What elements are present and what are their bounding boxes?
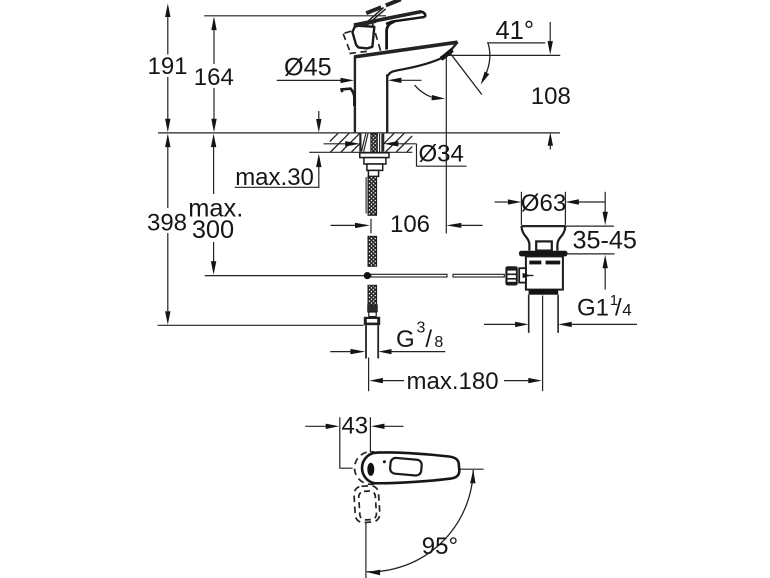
drain tailpipe left [528, 295, 530, 333]
handle raised-lever thin diagonal B [363, 8, 384, 26]
braided hose segment 2 [368, 236, 377, 266]
faucet spout tip return edge [449, 42, 458, 53]
angle arc right [482, 43, 490, 80]
drain clamp block [536, 241, 552, 250]
handle top-view right ref line [461, 468, 484, 470]
spout angle diagonal [450, 52, 482, 94]
dim 35-45 lower ref line [565, 253, 615, 255]
dim 45 right arrow [388, 78, 402, 83]
dim 35-45 lower arrow [603, 255, 608, 268]
mounting nut step3 [368, 170, 378, 176]
handle knob top edge [354, 21, 376, 26]
hose outline left of braid [365, 177, 367, 214]
dim 398 bottom arrow [165, 311, 170, 325]
dim 34 right arrow [383, 141, 398, 146]
dim 63 right ext line [564, 192, 566, 225]
hose end fitting [367, 305, 378, 313]
shank hose curve B [364, 134, 368, 152]
dim 45 left arrow [341, 78, 355, 83]
braided hose segment 3 [368, 285, 377, 312]
bottom 398 reference line [158, 324, 364, 326]
svg-text:3: 3 [417, 320, 426, 337]
handle top-view dashed lever outer [354, 485, 381, 523]
handle lever bar bottom line [386, 17, 425, 24]
dim max180 right ext line [542, 296, 544, 392]
dim 41deg down arrow [549, 22, 551, 42]
braided hose through counter [371, 134, 377, 152]
svg-text:35-45: 35-45 [573, 226, 637, 254]
dim 398 vertical line [167, 146, 169, 208]
handle dashed raised-lever bottom edge [350, 51, 369, 53]
svg-text:/: / [615, 295, 622, 322]
dim 164 vertical line [213, 19, 215, 64]
drain body tab right [546, 261, 561, 265]
label 41deg underline [487, 42, 545, 44]
pull-rod knob [342, 89, 355, 106]
handle top-view dashed lever inner [358, 491, 376, 521]
drain bottom rim [529, 290, 559, 295]
dim 34 left arrow [324, 143, 347, 145]
handle top-view dashed cap arc [355, 452, 375, 485]
drain flange [519, 251, 568, 257]
svg-text:max.30: max.30 [235, 164, 314, 191]
dim max300 vertical line [213, 146, 215, 194]
faucet spout top edge [354, 42, 457, 57]
label max.30 underline-leader [235, 186, 320, 188]
bottom view centerline [365, 523, 367, 578]
drain valve top [521, 225, 565, 227]
dim 95deg top arrowhead [470, 470, 475, 484]
dim 35-45 upper arrow [603, 212, 608, 226]
dim max300 bottom arrow [211, 261, 216, 275]
dim max300 top arrow [211, 134, 216, 148]
angle arc left arrowhead [432, 95, 446, 100]
handle top-view small dot [383, 460, 386, 463]
pop-up rod segment 2 [453, 274, 504, 277]
svg-text:4: 4 [622, 301, 631, 320]
dim 95deg arc [367, 470, 473, 572]
svg-text:95°: 95° [422, 533, 458, 560]
dim 106 right arrow [446, 223, 461, 228]
handle neck [387, 22, 395, 50]
dim 43 right tick [369, 417, 371, 452]
label 34 leader box [417, 144, 467, 166]
dim 95deg bottom arrowhead [367, 570, 381, 575]
rod clip detail [523, 273, 531, 278]
handle top-view recess [390, 457, 422, 475]
drain body [526, 256, 563, 289]
rod clevis collar [519, 268, 526, 282]
handle dashed raised neck [372, 22, 381, 52]
G3/8 nipple left edge [365, 325, 367, 358]
handle top-view pivot mark [367, 463, 374, 476]
braided hose segment 1 [368, 176, 377, 215]
angle arc right arrowhead [481, 72, 490, 85]
svg-text:G1: G1 [577, 295, 609, 322]
dim 63 left arrow [495, 201, 509, 203]
svg-text:108: 108 [531, 83, 571, 110]
dim G1-1/4 left arrow [484, 323, 516, 325]
dim max30 upper arrow [318, 111, 320, 122]
handle front knob [352, 26, 374, 49]
svg-text:8: 8 [434, 334, 443, 351]
shank hose curve A [362, 134, 366, 152]
mounting washer [360, 153, 389, 158]
dim 164 bottom arrow [211, 119, 216, 133]
svg-text:398: 398 [147, 210, 187, 237]
handle lever bar top line [354, 12, 421, 25]
svg-text:/: / [425, 326, 432, 353]
faucet spout bottom curve [388, 58, 442, 76]
dim G3/8 right arrow [379, 349, 392, 354]
dim max180 left ext line [368, 358, 370, 392]
dim max180 right arrow [504, 380, 529, 382]
countertop bottom line [309, 151, 412, 153]
shank left edge [359, 134, 361, 152]
svg-text:max.180: max.180 [407, 368, 499, 395]
dim 43 left tick [340, 417, 353, 468]
countertop hatching [330, 133, 338, 141]
dim 164 top arrow [211, 17, 216, 31]
mounting nut step2 [367, 164, 383, 170]
countertop top line [158, 132, 560, 134]
svg-text:191: 191 [147, 53, 187, 80]
svg-text:Ø34: Ø34 [419, 141, 464, 168]
handle lever bar tip [421, 12, 425, 18]
handle top-view body [362, 452, 459, 483]
hose-level reference line [205, 275, 364, 277]
handle-top reference line [204, 15, 386, 17]
dim 35-45 vertical line [604, 192, 606, 213]
drain tailpipe right [557, 295, 559, 333]
rod knurled nut [505, 266, 517, 285]
handle raised-lever thick dash 2 [386, 0, 401, 5]
dim 43 left arrow [305, 425, 327, 427]
handle dashed raised-lever lower diagonal [345, 27, 365, 33]
dim 191 vertical line [167, 16, 169, 55]
drain valve left side [521, 226, 529, 251]
G3/8 nut [364, 317, 380, 325]
handle raised-lever thin diagonal A [365, 9, 386, 27]
dim 63 right arrow [565, 199, 579, 204]
dim 191 bottom arrow [165, 119, 170, 133]
pull rod through counter [379, 134, 381, 152]
drain body tab left [529, 261, 541, 265]
G3/8 nipple right edge [377, 325, 379, 358]
faucet body right edge [386, 74, 388, 132]
svg-text:164: 164 [194, 64, 234, 91]
dim max30 lower arrow [316, 154, 321, 168]
dim 63 left ext line [520, 192, 522, 225]
svg-text:Ø63: Ø63 [521, 190, 566, 217]
angle arc left [415, 85, 432, 97]
dim 43 right arrow [371, 424, 385, 429]
dim G1-1/4 right arrow [558, 322, 572, 327]
label 45 leader line [277, 79, 341, 81]
handle raised-lever thick dash 1 [366, 7, 381, 13]
pivot ball joint [364, 272, 371, 279]
dim 108 bottom arrow [548, 132, 553, 146]
svg-text:Ø45: Ø45 [284, 54, 332, 82]
dim max180 left arrow [369, 378, 383, 383]
spout outlet vertical line [445, 54, 447, 234]
dim 106 left arrow [331, 224, 357, 226]
dim G3/8 left arrow [330, 351, 351, 353]
pop-up rod segment 1 [371, 274, 447, 277]
drain valve right side [557, 226, 565, 251]
shank right edge [382, 134, 384, 152]
svg-text:43: 43 [341, 413, 368, 440]
dim 35-45 upper ref line [566, 225, 614, 227]
handle dashed raised-lever left edge [343, 34, 350, 53]
dim 398 top arrow [165, 134, 170, 148]
svg-text:300: 300 [192, 216, 234, 244]
spout tip horizontal line [449, 54, 560, 56]
svg-text:G: G [396, 326, 415, 353]
faucet body left edge [354, 56, 356, 133]
svg-text:41°: 41° [496, 17, 535, 45]
dim 191 top arrow [165, 4, 170, 18]
dim 106 center tick [370, 219, 372, 234]
svg-text:106: 106 [390, 211, 430, 238]
mounting nut step1 [364, 158, 386, 164]
faucet spout tip underside band [441, 50, 452, 59]
